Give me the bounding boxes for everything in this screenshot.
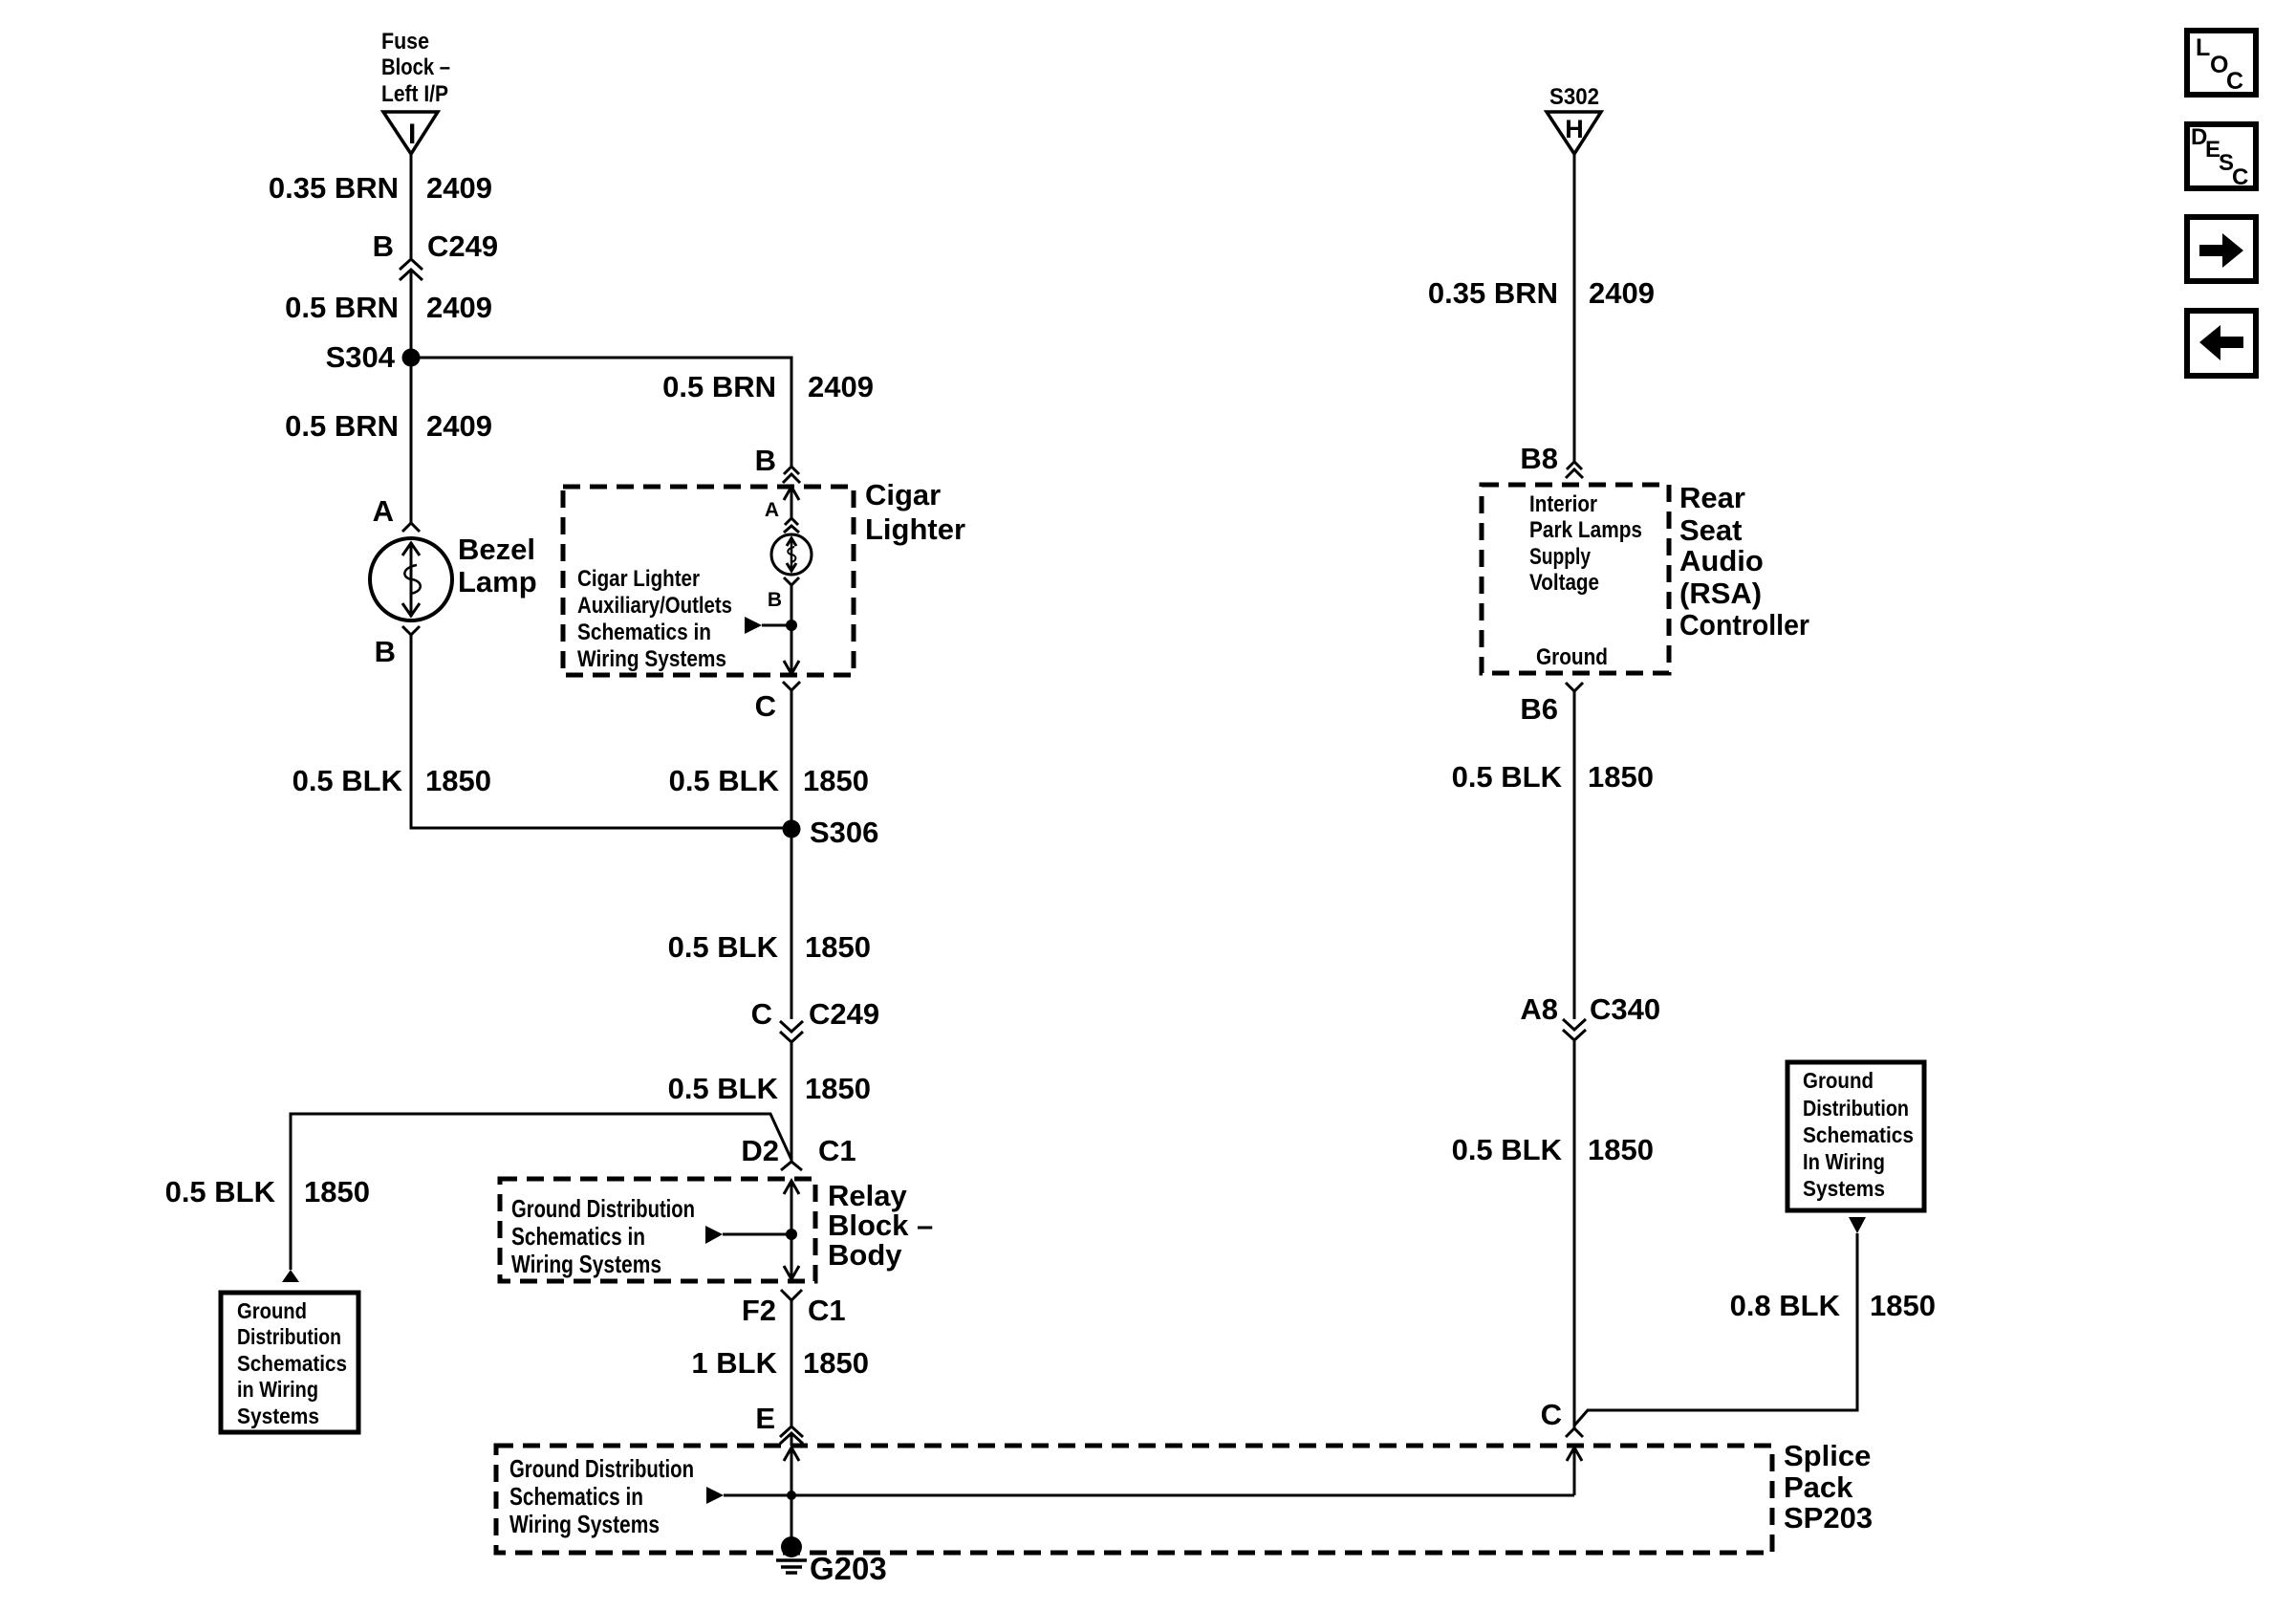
svg-text:I: I: [408, 119, 416, 150]
svg-text:2409: 2409: [426, 171, 492, 205]
svg-text:1850: 1850: [805, 930, 871, 964]
connector C1 pin F2 fork: [742, 1290, 846, 1327]
svg-text:(RSA): (RSA): [1679, 577, 1762, 610]
svg-text:1850: 1850: [1588, 760, 1654, 794]
svg-text:0.5 BLK: 0.5 BLK: [668, 930, 779, 964]
svg-text:SP203: SP203: [1784, 1501, 1873, 1535]
S302 triangle connector H: [1547, 112, 1601, 154]
svg-text:C340: C340: [1590, 992, 1660, 1026]
svg-text:1 BLK: 1 BLK: [691, 1346, 777, 1380]
svg-text:0.5 BLK: 0.5 BLK: [668, 1072, 779, 1105]
svg-text:1850: 1850: [304, 1175, 370, 1208]
branch wire to left ground ref: [291, 1114, 791, 1270]
svg-text:Ground: Ground: [1536, 644, 1608, 670]
svg-text:C: C: [1541, 1398, 1562, 1431]
svg-text:A: A: [765, 499, 779, 521]
relay inner wire with arrows: [705, 1181, 799, 1279]
svg-text:1850: 1850: [803, 764, 869, 797]
svg-text:0.5 BRN: 0.5 BRN: [285, 291, 399, 324]
fuse block triangle connector I: [383, 112, 438, 154]
label 0.35 BRN 2409 (right): [1428, 276, 1655, 310]
cigar pin C fork: [755, 682, 800, 723]
svg-text:2409: 2409: [1589, 276, 1655, 310]
svg-text:D2: D2: [741, 1134, 779, 1167]
svg-text:0.35 BRN: 0.35 BRN: [1428, 276, 1558, 310]
right ground distribution box: [1787, 1062, 1924, 1210]
ground G203: [776, 1536, 887, 1586]
svg-text:Splice: Splice: [1784, 1439, 1871, 1472]
DESC icon: [2187, 124, 2256, 190]
svg-text:C: C: [755, 689, 776, 723]
svg-text:B6: B6: [1520, 692, 1558, 726]
svg-text:Park Lamps: Park Lamps: [1529, 517, 1642, 543]
svg-text:Systems: Systems: [1803, 1176, 1885, 1201]
svg-text:Bezel: Bezel: [458, 533, 535, 566]
svg-text:Block –: Block –: [381, 54, 450, 80]
svg-text:B8: B8: [1520, 442, 1558, 475]
svg-text:C1: C1: [818, 1134, 856, 1167]
svg-text:Pack: Pack: [1784, 1470, 1853, 1504]
cigar pin A fork and chevron: [765, 499, 799, 533]
wire S304 down: [410, 358, 413, 523]
svg-text:in Wiring: in Wiring: [237, 1377, 318, 1402]
splice S304: [326, 340, 421, 374]
svg-text:Auxiliary/Outlets: Auxiliary/Outlets: [577, 593, 732, 619]
svg-text:C1: C1: [808, 1294, 846, 1327]
svg-text:1850: 1850: [1588, 1133, 1654, 1166]
svg-text:Cigar Lighter: Cigar Lighter: [577, 566, 700, 592]
cigar lighter dashed box: [563, 487, 854, 675]
svg-text:E: E: [755, 1402, 775, 1435]
splice inner wire E with up arrow: [706, 1448, 1574, 1539]
svg-text:Interior: Interior: [1529, 491, 1597, 517]
svg-text:Schematics in: Schematics in: [577, 620, 711, 645]
splice S306: [783, 816, 879, 849]
svg-text:0.8 BLK: 0.8 BLK: [1730, 1289, 1841, 1322]
svg-text:S302: S302: [1549, 84, 1599, 110]
label 0.5 BRN 2409: [285, 291, 492, 324]
svg-text:In Wiring: In Wiring: [1803, 1149, 1885, 1174]
cigar lamp pin B fork: [768, 577, 799, 611]
svg-text:0.5 BRN: 0.5 BRN: [285, 409, 399, 443]
cigar lighter pin B fork and chevron: [755, 444, 800, 483]
svg-text:C: C: [2226, 68, 2243, 95]
wire S302 to B8: [1573, 154, 1576, 462]
label 0.5 BLK 1850 (cigar): [669, 764, 869, 797]
label 0.8 BLK 1850: [1730, 1289, 1936, 1322]
wire cigar C to S306: [791, 690, 793, 1019]
svg-text:S304: S304: [326, 340, 396, 374]
svg-text:Rear: Rear: [1679, 481, 1745, 514]
svg-text:Voltage: Voltage: [1529, 570, 1599, 596]
label 0.35 BRN 2409: [269, 171, 492, 205]
svg-text:Ground: Ground: [237, 1298, 307, 1323]
label 0.5 BLK 1850 (below S306): [668, 930, 871, 964]
svg-text:Audio: Audio: [1679, 544, 1764, 577]
splice pack title: [1784, 1439, 1873, 1535]
connector C249 pin B: [373, 229, 499, 280]
connector pin C (splice) fork: [1541, 1398, 1583, 1437]
svg-text:0.35 BRN: 0.35 BRN: [269, 171, 399, 205]
svg-text:2409: 2409: [426, 291, 492, 324]
svg-text:G203: G203: [810, 1551, 887, 1586]
cigar box inner wire top with up arrow: [784, 487, 799, 518]
bezel lamp pin B fork: [375, 626, 420, 668]
wire B6 down: [1573, 691, 1576, 1019]
svg-text:Block –: Block –: [828, 1208, 933, 1242]
connector C340 pin A8: [1520, 992, 1660, 1040]
label 0.5 BLK 1850 (below C340): [1452, 1133, 1654, 1166]
label 0.5 BLK 1850 (B6): [1452, 760, 1654, 794]
svg-text:0.5 BLK: 0.5 BLK: [292, 764, 403, 797]
left arrow icon: [2187, 311, 2256, 376]
wire bezel B down to S306 row: [411, 635, 791, 828]
svg-text:2409: 2409: [808, 370, 874, 403]
svg-text:L: L: [2196, 34, 2210, 61]
svg-text:0.5 BLK: 0.5 BLK: [1452, 760, 1563, 794]
bezel lamp pin A fork: [373, 494, 420, 532]
svg-text:Lighter: Lighter: [865, 512, 965, 546]
svg-text:0.5 BLK: 0.5 BLK: [165, 1175, 276, 1208]
svg-text:0.5 BLK: 0.5 BLK: [1452, 1133, 1563, 1166]
svg-text:B: B: [755, 444, 776, 477]
svg-text:1850: 1850: [1870, 1289, 1936, 1322]
svg-text:2409: 2409: [426, 409, 492, 443]
RSA dashed box: [1482, 485, 1669, 673]
svg-text:0.5 BRN: 0.5 BRN: [662, 370, 776, 403]
label 0.5 BLK 1850 (above D2): [668, 1072, 871, 1105]
splice note text: [509, 1454, 694, 1538]
svg-text:Distribution: Distribution: [237, 1324, 341, 1349]
svg-text:F2: F2: [742, 1294, 776, 1327]
svg-text:H: H: [1565, 115, 1584, 143]
cigar box note text: [577, 566, 732, 672]
cigar lighter title: [865, 478, 965, 546]
svg-text:B: B: [375, 635, 396, 668]
splice inner wire C with up arrow: [1567, 1447, 1582, 1495]
svg-text:1850: 1850: [805, 1072, 871, 1105]
svg-text:Controller: Controller: [1679, 608, 1809, 642]
cigar inner wire, junction, ref arrow: [745, 585, 799, 674]
label 0.5 BLK 1850 (bezel): [292, 764, 491, 797]
svg-text:Ground: Ground: [1803, 1068, 1874, 1093]
svg-text:A: A: [373, 494, 394, 528]
svg-text:C: C: [751, 997, 772, 1031]
svg-text:Left I/P: Left I/P: [381, 81, 448, 107]
svg-text:Schematics in: Schematics in: [509, 1482, 643, 1511]
svg-text:B: B: [373, 229, 394, 263]
svg-text:Schematics: Schematics: [237, 1351, 347, 1376]
RSA title: [1679, 481, 1809, 642]
connector C249 pin C: [751, 997, 880, 1042]
svg-text:B: B: [768, 589, 782, 611]
LOC icon: [2187, 31, 2256, 95]
svg-text:Wiring Systems: Wiring Systems: [511, 1250, 661, 1278]
right arrow icon: [2187, 217, 2256, 281]
connector E: [755, 1402, 803, 1444]
wire fuse to C249: [410, 154, 413, 258]
svg-text:Ground Distribution: Ground Distribution: [509, 1454, 694, 1483]
left ground distribution box: [221, 1293, 358, 1432]
connector C1 pin D2 fork: [741, 1134, 856, 1170]
svg-text:Wiring Systems: Wiring Systems: [577, 646, 726, 672]
svg-text:Supply: Supply: [1529, 544, 1592, 570]
wire S304 branch right: [411, 358, 791, 467]
svg-text:Lamp: Lamp: [458, 565, 537, 599]
splice pack dashed box: [496, 1446, 1772, 1553]
relay note text: [511, 1194, 695, 1278]
svg-text:Seat: Seat: [1679, 513, 1742, 547]
svg-text:C249: C249: [809, 997, 879, 1031]
svg-text:C249: C249: [427, 229, 498, 263]
svg-text:S306: S306: [810, 816, 878, 849]
svg-text:1850: 1850: [803, 1346, 869, 1380]
svg-text:Fuse: Fuse: [381, 29, 429, 54]
cigar lamp: [771, 534, 812, 575]
connector pin B8 fork and chevron: [1520, 442, 1583, 478]
label 0.5 BRN 2409 (branch): [662, 370, 874, 403]
svg-text:0.5 BLK: 0.5 BLK: [669, 764, 780, 797]
RSA inner text: [1529, 491, 1642, 670]
svg-text:A8: A8: [1520, 992, 1558, 1026]
label 0.5 BRN 2409: [285, 409, 492, 443]
connector pin B6 fork: [1520, 683, 1583, 726]
svg-text:C: C: [2232, 164, 2248, 190]
svg-text:Schematics in: Schematics in: [511, 1222, 645, 1251]
relay block dashed box: [500, 1179, 815, 1281]
svg-text:1850: 1850: [425, 764, 491, 797]
0.8 BLK branch wire: [1574, 1217, 1866, 1426]
label 1 BLK 1850: [691, 1346, 869, 1380]
svg-text:Relay: Relay: [828, 1179, 907, 1212]
svg-text:Ground Distribution: Ground Distribution: [511, 1194, 695, 1223]
wire F2 to splice pack: [791, 1300, 793, 1426]
svg-text:Wiring Systems: Wiring Systems: [509, 1510, 660, 1538]
bezel lamp: [370, 533, 537, 620]
fuse block label: [381, 29, 450, 107]
svg-text:Schematics: Schematics: [1803, 1122, 1914, 1147]
svg-text:Distribution: Distribution: [1803, 1096, 1909, 1121]
label 0.5 BLK 1850 (left branch): [165, 1175, 370, 1208]
svg-text:Systems: Systems: [237, 1404, 319, 1428]
svg-text:Body: Body: [828, 1238, 902, 1272]
relay block title: [828, 1179, 933, 1272]
wire C249 to S304: [410, 270, 413, 358]
svg-text:Cigar: Cigar: [865, 478, 941, 512]
